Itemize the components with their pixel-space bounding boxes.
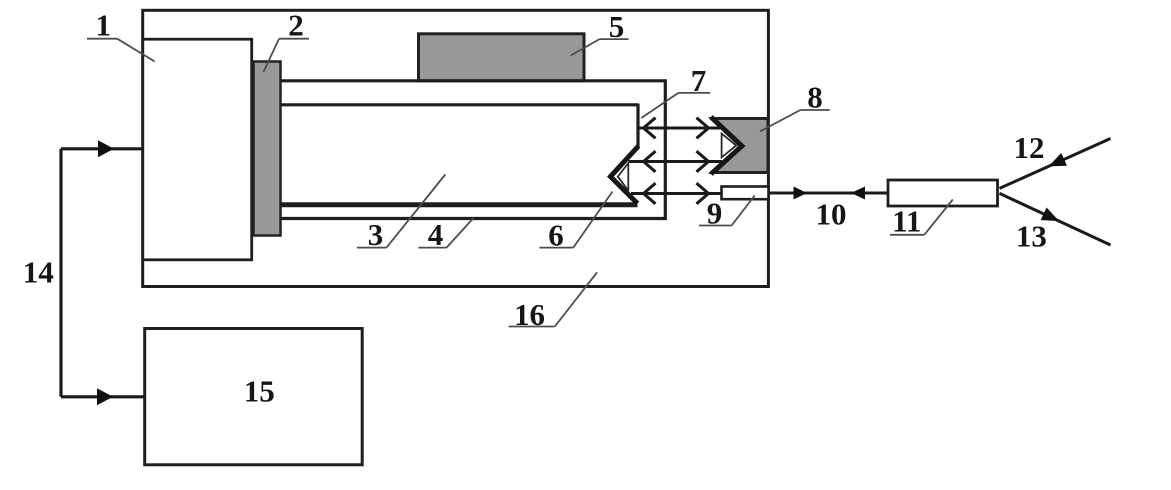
cone 8 thick chevron face [711,117,742,174]
label 3 underline [357,247,387,249]
wire 14 bottom segment [61,395,144,398]
pump source box 1 [143,39,252,260]
label 3 leader [387,175,446,248]
svg-text:14: 14 [23,255,54,290]
line 13 arrowhead [1041,208,1059,222]
line 12 arrowhead [1049,153,1067,166]
outer enclosure box 16 [143,10,769,286]
svg-text:11: 11 [892,204,921,239]
inner tube 3 top wall [281,103,639,106]
beam arrow bottom line [631,192,722,195]
line 10 left-pointing solid head [851,187,865,200]
label 7 leader [641,93,678,118]
label 16 leader [555,272,597,326]
beam arrow top right head [697,118,709,139]
label 4 underline [418,247,446,249]
wire 14 top arrowhead [98,140,114,157]
detector box 11 [888,180,998,206]
beam arrow middle right head [697,151,709,172]
label 6 leader [573,192,612,248]
label 8 underline [800,109,829,111]
label 4 leader [447,218,474,248]
beam line 12 [1000,139,1111,189]
label 5 underline [600,38,629,40]
label 1 leader [117,39,155,62]
label 6 underline [540,247,574,249]
label 5 leader [571,39,600,55]
label 9 underline [699,225,732,227]
label 1 underline [87,38,117,40]
tube 3 right edge [636,104,639,148]
line 10 right-pointing solid head [794,187,808,200]
label 7 underline [678,92,710,94]
gray disc 2 [254,62,281,236]
svg-text:10: 10 [816,197,847,232]
svg-text:12: 12 [1014,130,1045,165]
beam arrow bottom right head [697,183,709,204]
label 8 leader [760,110,801,132]
wire 14 bottom arrowhead [97,388,113,405]
control box 15 [145,329,363,465]
label 2 leader [264,39,280,72]
svg-text:15: 15 [244,373,275,408]
cone absorber 8 gray body [712,119,768,173]
inner tube 3 bottom wall [281,202,638,207]
beam arrow top left head [644,118,656,139]
label 11 underline [890,234,924,236]
label 16 underline [509,326,555,328]
svg-text:13: 13 [1016,219,1047,254]
window 6 inner cone triangle [618,163,629,191]
svg-text:1: 1 [96,8,112,43]
beam arrow top line [639,127,723,130]
window zigzag 6 thick chevron [611,146,639,204]
beam arrow bottom left head [644,183,656,204]
svg-text:2: 2 [288,8,304,43]
beam line 13 [1000,193,1111,245]
label 11 leader [924,200,953,235]
output plate 9 [722,187,769,200]
label 2 underline [279,38,309,40]
beam arrow middle line [629,160,723,163]
outer tube 4 [281,81,666,219]
cone 8 inner cone triangle [722,134,737,158]
output beam line 10 [769,192,889,195]
wire 14 vertical segment [59,149,62,397]
wire 14 top segment [61,147,143,150]
gray block 5 [419,34,585,81]
label 9 leader [732,196,755,226]
beam arrow middle left head [644,151,656,172]
